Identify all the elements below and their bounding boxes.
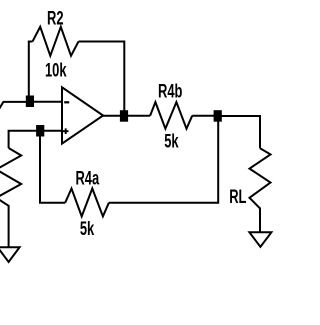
wire op-amp output to node B — [102, 115, 121, 117]
node C feedback junction — [214, 110, 222, 122]
node D noninverting-input junction — [36, 125, 44, 137]
ground left — [0, 247, 20, 262]
svg-text:5k: 5k — [80, 218, 95, 239]
wire node A up to R2 — [29, 42, 33, 98]
svg-text:R2: R2 — [47, 8, 64, 29]
resistor R2 zigzag — [33, 27, 79, 56]
op-amp — [62, 87, 103, 143]
wire RL to ground — [259, 208, 261, 233]
svg-text:R4a: R4a — [75, 168, 99, 189]
node B output junction — [120, 110, 128, 122]
node A inverting-input junction — [26, 96, 34, 108]
wire node B to R4b — [127, 115, 150, 117]
wire plus input to op-amp — [43, 130, 62, 132]
wire R4b to node C — [192, 115, 215, 117]
resistor R4a zigzag — [65, 189, 109, 217]
resistor R4b zigzag — [150, 102, 192, 129]
svg-text:5k: 5k — [164, 131, 179, 152]
svg-text:10k: 10k — [45, 60, 67, 81]
svg-text:R4b: R4b — [158, 81, 182, 102]
wire node A to op-amp minus input — [33, 101, 62, 103]
wire node C right and down to RL — [221, 116, 260, 148]
ground right — [249, 232, 271, 247]
resistor left (unlabeled, partially cut) — [0, 148, 21, 206]
wire node D left and down to left resistor — [9, 131, 37, 148]
wire R2 right to node B — [79, 42, 125, 113]
svg-text:RL: RL — [229, 187, 246, 208]
wire node D down to R4a — [40, 133, 65, 203]
wire left resistor to ground — [8, 205, 10, 247]
wire R4a right up to node C — [109, 114, 218, 203]
resistor RL zigzag — [250, 148, 271, 208]
wire input stub at left edge — [0, 102, 27, 112]
